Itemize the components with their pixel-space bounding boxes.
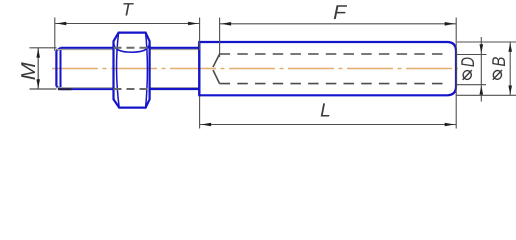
dimension M extension lines [30,48,57,89]
hex nut facet curves [117,33,148,108]
dimension D arrows [480,44,484,94]
hex nut outline [114,33,150,108]
svg-text:T: T [122,0,135,20]
hidden thread lines through nut [114,48,150,89]
svg-text:M: M [18,62,40,80]
shaft left face (step) [198,42,200,95]
hidden bore cone point [213,54,220,84]
dimension B label [488,57,509,80]
svg-text:D: D [457,57,478,67]
stud shank (between nut and shaft) [150,48,200,89]
dimension F arrows [221,22,455,26]
dimension M label [18,62,40,80]
thread runout dark segment on lower edge [58,88,72,90]
dimension M arrows [36,49,40,89]
dimension F line [220,23,457,25]
dimension D line [480,37,482,102]
dimension B line [509,42,511,95]
dimension B extension lines [456,42,516,95]
centerline (axis, dash-dot orange) [52,68,458,70]
hex nut top chamfer arc [114,44,150,52]
dimension L line [200,124,457,126]
dimension T label [122,0,135,20]
dimension F extension lines [220,18,457,129]
hidden bore lines [220,54,449,84]
svg-text:L: L [320,101,331,122]
dimension L extension line (left) [199,96,201,129]
thread root lines (thin) [57,50,199,88]
dimension L arrows [201,123,455,127]
dimension T arrows [56,22,198,26]
dimension T extension lines [55,18,200,52]
dimension F label [333,2,348,24]
threaded stud body (left section) [56,48,113,89]
dimension D label [457,57,478,80]
dimension T line [55,23,200,25]
stud end chamfer [56,48,60,89]
svg-text:B: B [488,57,509,67]
dimension M line [37,48,39,89]
svg-text:F: F [333,2,348,24]
cylindrical shaft body [199,42,456,95]
dimension B arrows [508,43,512,95]
dimension L label [320,101,331,122]
dimension D extension lines [457,55,487,85]
